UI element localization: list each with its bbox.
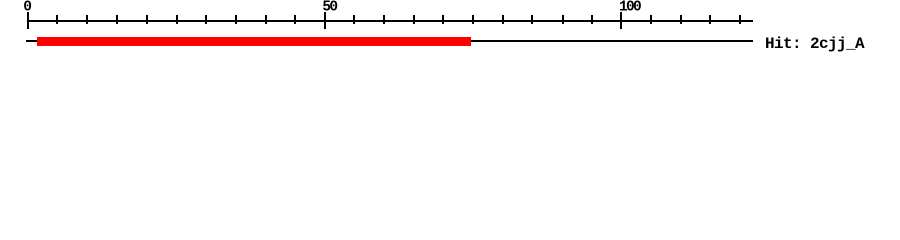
major tick 100 [620, 12, 622, 29]
major tick 0 [27, 12, 29, 29]
major tick 50 [324, 12, 326, 29]
svg-text:0: 0 [23, 0, 31, 16]
minor ticks after 100 [650, 15, 741, 24]
hit track base line [26, 40, 753, 42]
hit alignment red bar [37, 37, 471, 46]
minor ticks between 50 and 100 [353, 15, 593, 24]
ruler axis line [27, 20, 753, 22]
svg-text:100: 100 [619, 0, 641, 16]
minor ticks between 0 and 50 [56, 15, 296, 24]
svg-text:50: 50 [322, 0, 337, 16]
svg-text:Hit: 2cjj_A: Hit: 2cjj_A [765, 35, 865, 53]
